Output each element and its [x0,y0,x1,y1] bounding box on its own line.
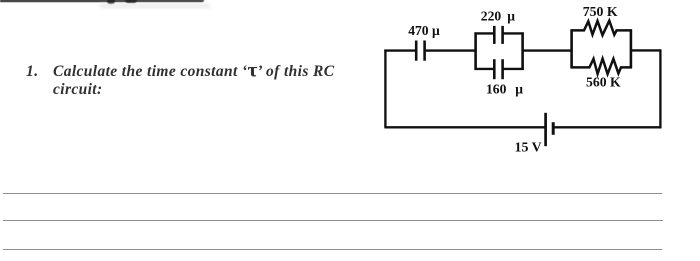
capacitor C1 470u left plate [415,41,418,61]
capacitor C1 470u right plate [423,41,426,61]
wire: top branch right segment [503,32,523,34]
parallel resistor box left bar [570,29,573,68]
wire: bottom branch left segment [475,68,494,70]
wire: bottom left horizontal [384,126,545,128]
wire: bottom right horizontal [554,126,662,128]
wire: left vertical [384,50,386,128]
svg-text:220 μ: 220 μ [481,8,516,23]
svg-text:560 K: 560 K [586,74,621,89]
svg-text:470 μ: 470 μ [408,23,440,38]
battery B1 short plate [552,122,555,135]
top crop line descender blob 1 [107,0,115,4]
question text [53,63,353,99]
parallel cap box left bar [474,32,477,70]
parallel resistor box right bar [630,29,633,68]
answer line 3 [3,249,662,250]
answer line 1 [3,193,662,194]
resistor R1 750K zigzag [571,21,633,36]
top crop line [0,0,204,2]
top crop line descender blob 2 [125,0,137,3]
capacitor C2 220u left plate [493,26,496,44]
wire: C1 to parallel cap box [426,49,476,51]
capacitor C2 220u right plate [501,26,504,44]
battery B1 long plate [544,113,547,146]
svg-text:160 μ: 160 μ [486,82,523,97]
wire: resistor box to right corner [630,49,661,51]
wire: bottom branch right segment [503,68,523,70]
svg-text:750 K: 750 K [583,4,618,19]
capacitor C3 160u left plate [493,59,496,79]
wire: top left horizontal to C1 [384,49,415,51]
svg-text:15 V: 15 V [515,141,542,156]
capacitor C3 160u right plate [501,59,504,79]
answer line 2 [3,220,663,221]
wire: right vertical [659,49,661,128]
parallel cap box right bar [521,32,524,70]
faint ghost text under top line [100,4,210,8]
resistor R2 560K zigzag [571,59,633,74]
wire: cap box to resistor box [523,49,572,51]
wire: top branch left segment [475,32,494,34]
question number 1. [26,63,39,81]
